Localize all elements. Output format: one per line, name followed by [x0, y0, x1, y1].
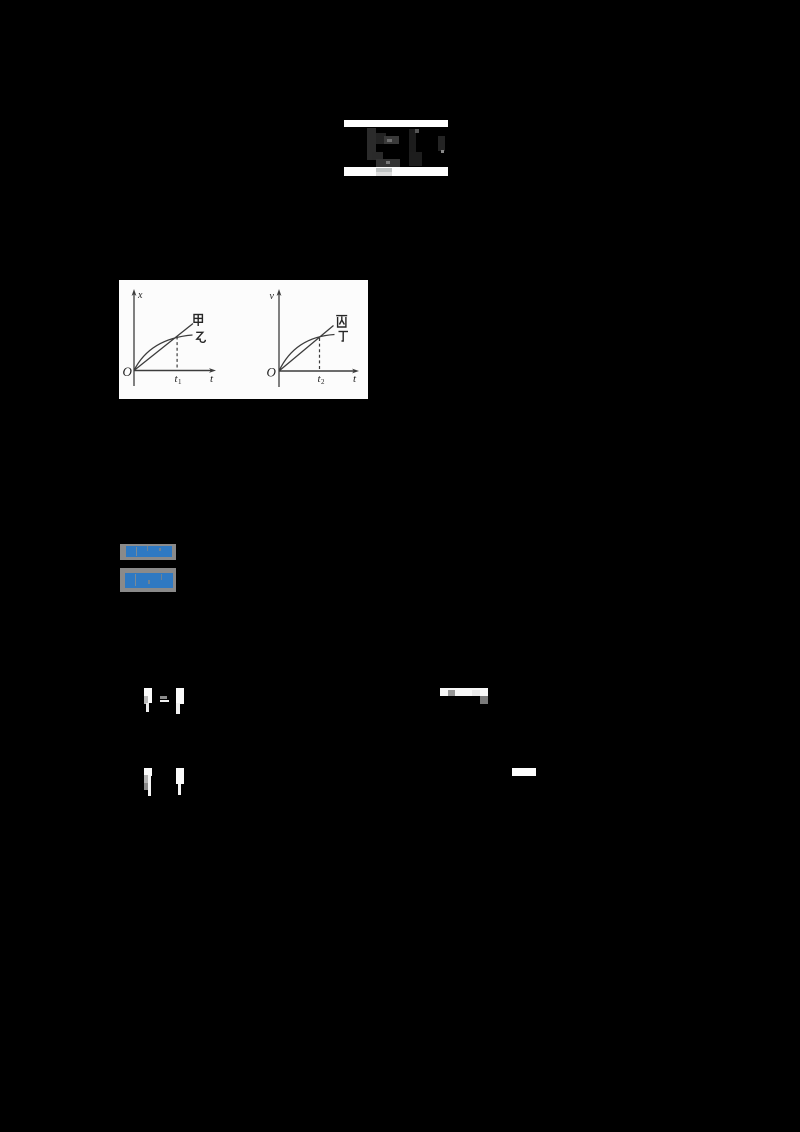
graph figure white box [119, 280, 368, 399]
formula fragment 2 right white stem [176, 768, 184, 784]
analysis tag blue text block [125, 573, 173, 588]
answer tag gray box [120, 544, 176, 560]
formula fragment 1 middle bar [160, 696, 167, 700]
glyph yi [196, 332, 205, 342]
right line bing [279, 326, 334, 372]
right curve ding [279, 335, 335, 372]
svg-text:O: O [123, 364, 133, 379]
answer tag blue text block [126, 546, 172, 557]
right dashed t2 [319, 338, 321, 371]
formula strip v equals [440, 688, 488, 696]
formula fragment 2 left white stem [144, 768, 152, 776]
glyph ding [339, 332, 349, 342]
faint formula glyphs between bars [367, 128, 376, 160]
small white bar right [512, 768, 536, 777]
analysis tag gray box [120, 568, 176, 592]
formula fraction bar bottom [344, 167, 448, 176]
svg-text:O: O [267, 365, 277, 380]
right graph y axis [278, 293, 280, 387]
glyph bing [336, 316, 347, 327]
svg-text:x: x [137, 290, 143, 301]
left dashed t1 [176, 337, 178, 371]
left line jia [134, 324, 193, 371]
right graph x axis [279, 370, 355, 372]
svg-text:t: t [210, 373, 214, 385]
formula fragment 1 right white stem [176, 688, 184, 704]
svg-text:v: v [270, 291, 275, 302]
svg-text:2: 2 [321, 378, 325, 386]
glyph jia [194, 315, 202, 327]
svg-text:t: t [353, 373, 357, 385]
left graph x axis [134, 370, 212, 372]
formula fragment 1 left white stem [144, 688, 152, 703]
formula fraction bar top [344, 120, 448, 127]
left graph y axis [133, 293, 135, 386]
left curve yi [134, 335, 193, 371]
gray smudge on bottom bar [376, 168, 392, 172]
svg-text:1: 1 [178, 378, 182, 386]
